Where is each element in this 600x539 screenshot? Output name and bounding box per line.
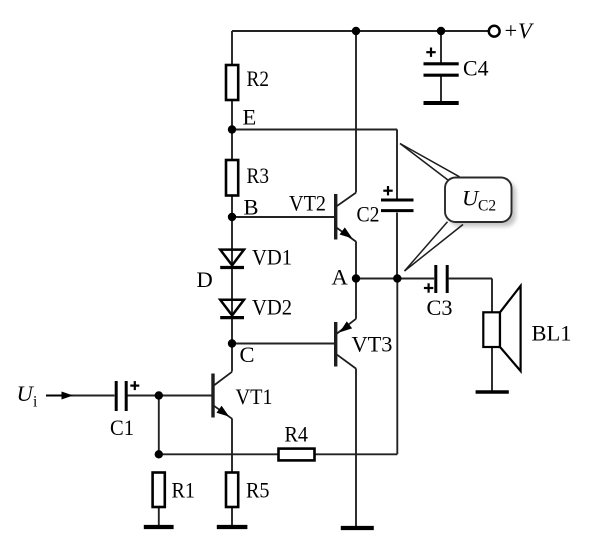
svg-text:i: i — [33, 394, 38, 411]
C1 polarity plus — [130, 381, 139, 390]
svg-text:R3: R3 — [247, 163, 270, 188]
transistor VT2 — [336, 193, 356, 242]
callout box shadow — [449, 182, 516, 227]
C2 polarity plus — [383, 186, 392, 195]
resistor R4 — [279, 449, 315, 461]
wire node E horizontal to C2 branch — [232, 129, 397, 131]
svg-text:VT2: VT2 — [289, 191, 326, 216]
capacitor C1 — [116, 381, 126, 411]
svg-text:VD2: VD2 — [252, 295, 292, 320]
diode VD2 — [220, 300, 244, 318]
svg-text:R4: R4 — [285, 422, 309, 447]
wire top +V rail — [232, 30, 489, 32]
svg-text:VT3: VT3 — [352, 332, 393, 357]
ground below R5 — [217, 525, 248, 529]
wire VT1 emitter down to R5 — [231, 419, 233, 473]
junction node A at C2 branch — [393, 274, 401, 282]
resistor R5 — [226, 473, 238, 508]
svg-text:R1: R1 — [172, 478, 196, 503]
wire R3 through node B, VD1, VD2 to VT1 collector at node C — [231, 196, 233, 372]
wire top rail to R2 — [231, 31, 233, 66]
transistor VT3 — [336, 319, 356, 369]
capacitor C4 — [424, 64, 459, 75]
wire C2 to node A — [396, 213, 398, 279]
C3 polarity plus — [424, 283, 433, 292]
svg-text:C2: C2 — [478, 198, 496, 215]
svg-text:+: + — [505, 18, 518, 43]
wire top rail to C4 — [440, 31, 442, 63]
wire C3 to speaker — [449, 278, 492, 280]
capacitor C3 — [436, 265, 447, 293]
junction node E — [228, 125, 236, 133]
ground below R1 — [144, 525, 174, 529]
ground below speaker BL1 — [476, 390, 509, 394]
wire VT2 collector to top rail — [355, 31, 357, 193]
wire speaker to ground — [491, 347, 493, 391]
svg-text:B: B — [244, 195, 259, 220]
svg-text:C1: C1 — [110, 415, 134, 440]
wire down to speaker box — [491, 279, 493, 313]
wire VT2 emitter to node A — [355, 242, 357, 279]
wire R2 to R3 through node E — [231, 100, 233, 161]
svg-text:D: D — [197, 267, 213, 292]
wire E branch down to C2 — [396, 130, 398, 200]
wire C4 to ground — [440, 77, 442, 102]
junction node at R1 top — [155, 450, 163, 458]
wire node A horizontal to C3 — [356, 278, 434, 280]
junction node C — [228, 339, 236, 347]
ground below VT3 — [341, 526, 374, 530]
svg-text:C2: C2 — [357, 202, 380, 227]
wire VT3 collector to ground — [355, 369, 357, 527]
wire R5 to ground — [231, 507, 233, 526]
svg-text:E: E — [243, 105, 257, 130]
svg-text:VT1: VT1 — [236, 384, 273, 409]
resistor R1 — [153, 473, 165, 508]
svg-text:C3: C3 — [427, 295, 453, 320]
svg-text:A: A — [332, 265, 349, 290]
ground below C4 — [424, 101, 459, 105]
speaker BL1 — [483, 286, 520, 371]
wire node B to VT2 base — [232, 216, 334, 218]
wire R4 row up to node A — [396, 279, 398, 455]
wire base node down to R1 — [158, 396, 160, 455]
svg-text:V: V — [518, 18, 534, 43]
svg-text:C4: C4 — [463, 56, 489, 81]
callout pointer to C2 top wire — [400, 144, 460, 184]
svg-text:R5: R5 — [246, 478, 270, 503]
input arrow — [46, 395, 62, 397]
capacitor C2 — [381, 200, 414, 211]
wire VT1 base lead — [128, 395, 212, 397]
resistor R2 — [226, 65, 238, 100]
svg-text:U: U — [17, 381, 35, 406]
wire node A to VT3 emitter — [355, 279, 357, 319]
wire R1 to ground — [158, 507, 160, 526]
resistor R3 — [226, 160, 238, 196]
terminal +V circle — [489, 26, 500, 37]
svg-text:BL1: BL1 — [532, 321, 572, 346]
svg-text:C: C — [240, 342, 255, 367]
wire node C to VT3 base — [232, 343, 334, 345]
svg-text:VD1: VD1 — [252, 245, 292, 270]
diode VD1 — [220, 250, 244, 268]
junction node at VT1 base — [155, 391, 163, 399]
callout pointer to node A — [405, 222, 464, 271]
transistor VT1 — [213, 372, 232, 419]
wire input to C1 — [70, 395, 115, 397]
C4 polarity plus — [426, 48, 435, 57]
wire feedback node to R4 row — [159, 453, 397, 455]
junction node A at VT2 emitter — [352, 274, 360, 282]
callout box U_C2 — [445, 178, 512, 223]
junction node on top rail at VT2 collector — [352, 27, 360, 35]
junction node on top rail at C4 — [437, 27, 445, 35]
svg-text:R2: R2 — [247, 66, 270, 91]
junction node B — [228, 213, 236, 221]
